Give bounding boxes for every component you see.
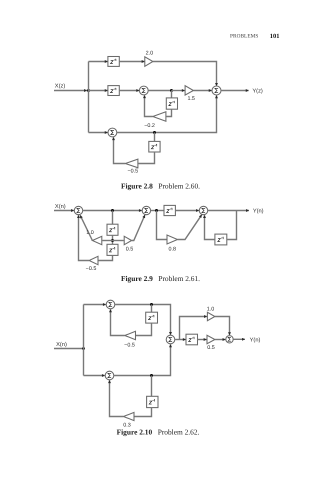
wire delay C1 to gain 2.0 [119,61,144,63]
adder U1 top [106,300,115,309]
svg-text:PROBLEMS: PROBLEMS [230,34,258,40]
svg-text:−0.5: −0.5 [127,169,138,175]
gain 0.3 triangle [124,412,135,420]
wire T2 to tap C [151,210,164,212]
gain -0.2 triangle [153,112,166,122]
wire tap A to delay D1 [112,211,114,225]
wire branch vertical [88,62,90,133]
gain 1.0 triangle [92,236,101,244]
wire junction to delay C2 [89,90,108,92]
adder U2 bottom [105,371,114,380]
node tap top loop [150,303,153,306]
svg-text:Y(z): Y(z) [252,87,263,94]
delay E3 z^-1 inline fig210 [186,334,198,345]
node tap bottom loop [150,374,153,377]
wire branch vertical fig210 [83,305,85,376]
wire delay D2 to gain -0.5 [98,255,112,260]
wire gain 0.3 to adder U2 [110,380,124,416]
wire branch to adder U1 [84,304,106,306]
wire S2 to Y(z) [221,90,249,92]
svg-text:Y(n): Y(n) [253,208,264,215]
wire tap B to gain 0.5 [113,240,124,242]
svg-text:X(n): X(n) [55,203,66,210]
adder U3 middle [166,335,175,344]
delay D1 z^-1 chain upper [107,224,118,235]
wire gain 0.5 diagonal to T2 [132,215,145,241]
svg-text:1.0: 1.0 [207,306,215,312]
gain 1.5 triangle [185,86,193,95]
gain 0.5 triangle fig210 [207,335,215,343]
wire delay D3 to adder T3 [175,210,199,212]
adder T1 [74,206,82,214]
wire delay D1 to tap B [112,235,114,244]
svg-text:1.0: 1.0 [86,230,94,236]
gain 1.0 triangle fig210 [207,312,215,320]
node tap B [111,239,114,242]
wire U2 to adder U3 bottom [114,344,171,375]
gain -0.5 triangle [125,159,137,168]
wire T1 to T2 [83,210,142,212]
wire tap to delay E1 [151,305,153,313]
adder S1 [139,86,148,95]
wire gain -0.2 to adder S1 [145,95,153,116]
wire delay C4 to gain -0.5 [138,152,154,164]
wire gain -0.5 to adder T1 [79,215,90,260]
delay C1 z^-1 top [108,57,119,67]
node tap A [111,209,114,212]
wire junction down to adder S3 [89,132,108,134]
wire X(z) input [54,90,87,92]
wire delay E2 to gain 0.3 [134,408,151,417]
wire delay C2 to adder S1 [119,90,139,92]
wire U3 to delay E3 [175,339,186,341]
adder T2 [142,206,150,214]
wire U4 to Y(n) [233,338,245,340]
wire gain 0.5 to adder U4 [215,339,226,341]
wire branch to adder U2 [84,375,105,377]
svg-text:1.5: 1.5 [187,96,195,102]
node tap lower path [153,131,156,134]
wire T3 to Y(n) [208,210,249,212]
delay E1 z^-1 top loop [146,312,158,323]
wire gain -0.5 to adder U1 [111,309,125,335]
adder S2 output [212,86,221,95]
wire X(n) input fig210 [54,348,84,350]
wire tap down to delay C4 [154,133,156,142]
svg-text:0.5: 0.5 [207,345,215,351]
wire S1 to tap [148,90,171,92]
gain 2.0 triangle [145,57,153,67]
wire gain 1.0 diagonal to T1 [80,215,92,240]
svg-text:0.8: 0.8 [169,247,177,253]
wire gain 0.8 diagonal to T3 [178,215,202,240]
wire delay E1 to gain -0.5 fig210 [136,323,152,335]
svg-text:−0.5: −0.5 [124,343,135,349]
wire gain 2.0 to adder S2 top [153,62,217,86]
wire X(n) input [54,210,74,212]
wire tap to delay E2 [151,376,153,397]
svg-text:−0.5: −0.5 [86,266,97,272]
delay C3 z^-1 feedback upper [166,98,177,109]
node input branch junction [87,89,90,92]
wire output feedback to delay D4 [227,211,236,240]
adder T3 [199,206,207,214]
wire tap B to gain 1.0 [102,240,112,242]
svg-text:Figure 2.8Problem 2.60.: Figure 2.8Problem 2.60. [121,181,200,190]
wire U1 to adder U3 top [115,305,171,335]
svg-text:Figure 2.10Problem 2.62.: Figure 2.10Problem 2.62. [117,428,200,437]
gain -0.5 triangle fig210 [125,331,136,339]
svg-text:2.0: 2.0 [146,51,154,57]
wire tap down to delay C3 [171,91,173,98]
wire delay C3 to gain -0.2 [166,109,171,116]
gain 0.8 triangle [167,235,178,244]
svg-text:−0.2: −0.2 [144,123,155,129]
node tap after S1 [170,89,173,92]
delay C2 z^-1 main [108,86,119,96]
wire delay E3 to gain 0.5 fig210 [198,339,207,341]
node tap C [155,209,158,212]
svg-text:Y(n): Y(n) [250,336,261,343]
wire tap C down to gain 0.8 [157,211,167,240]
svg-text:Figure 2.9Problem 2.61.: Figure 2.9Problem 2.61. [121,274,200,283]
wire tap up to gain 1.0 fig210 [180,317,207,340]
wire gain 1.0 to adder U4 [215,317,230,336]
wire delay D4 to adder T3 [205,215,215,239]
delay D4 z^-1 output feedback [215,234,227,245]
svg-text:X(n): X(n) [56,341,67,348]
delay D2 z^-1 chain lower [107,244,118,255]
gain -0.5 triangle fig29 [89,256,98,264]
delay C4 z^-1 feedback lower [149,141,160,152]
svg-text:101: 101 [270,33,280,40]
wire branch to delay C1 [89,61,108,63]
wire gain 1.5 to adder S2 [193,90,211,92]
delay E2 z^-1 bottom loop [147,396,158,407]
svg-text:0.5: 0.5 [126,247,134,253]
adder S3 [108,128,117,137]
wire gain -0.5 to adder S3 [114,137,126,163]
adder U4 output [226,336,233,343]
wire S3 to adder S2 bottom [117,95,217,132]
wire tap to gain 1.5 [172,90,185,92]
node input junction fig210 [82,347,85,350]
gain 0.5 triangle [124,236,131,244]
delay D3 z^-1 inline [164,205,175,215]
svg-text:X(z): X(z) [55,82,66,89]
